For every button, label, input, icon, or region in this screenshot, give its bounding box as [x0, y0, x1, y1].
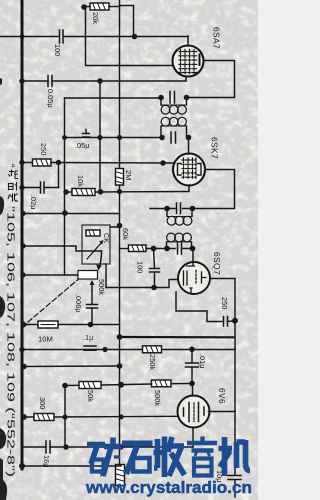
potentiometer 500k — [22, 274, 78, 276]
wire 6SA7 plate loop — [187, 61, 235, 98]
svg-text:CK: CK — [102, 233, 111, 243]
resistor R 10k line y191 — [65, 191, 189, 194]
wire 6V6 cathode — [192, 428, 194, 448]
svg-text:60k: 60k — [121, 228, 130, 240]
wire grid line y81 — [22, 76, 186, 81]
wire main left bus — [21, 0, 24, 469]
left page text column — [5, 164, 16, 477]
resistor R 500k second — [152, 380, 172, 387]
resistor R 250k — [143, 346, 162, 353]
wire top horizontal y36 — [0, 36, 188, 38]
svg-text:“: “ — [5, 164, 16, 168]
wire dashed coupling — [28, 280, 78, 323]
wire 20k to V3 — [109, 6, 120, 8]
svg-text:0.05μ: 0.05μ — [46, 89, 55, 108]
hand-drawn chars xin shi dai — [8, 170, 18, 202]
tube 6V6 — [178, 396, 210, 428]
svg-text:10k: 10k — [76, 175, 85, 187]
wire V59 down — [58, 163, 60, 188]
char ji — [219, 437, 233, 476]
resistor R 20k — [90, 3, 109, 10]
svg-text:10M: 10M — [38, 335, 53, 344]
resistor R 2M on V3 — [116, 169, 124, 186]
svg-text:.01μ: .01μ — [198, 354, 207, 369]
wire under 6SQ7 — [176, 292, 222, 322]
svg-text:100: 100 — [136, 261, 145, 273]
node junction at 134,36 — [132, 34, 138, 40]
resistor R 300 — [34, 414, 54, 421]
svg-text:50k: 50k — [86, 390, 95, 402]
svg-text:250: 250 — [220, 297, 229, 309]
capacitor .006u — [87, 305, 98, 309]
tube 6SA7 — [173, 46, 204, 77]
char kuang — [87, 445, 105, 465]
tube 6SQ7 — [178, 262, 210, 294]
svg-text:.02μ: .02μ — [29, 195, 38, 210]
resistor R 10M line y324 — [25, 324, 120, 326]
svg-text:”105, 106, 107, 108, 109 (“552: ”105, 106, 107, 108, 109 (“552-8”) — [5, 206, 16, 477]
char shi — [122, 444, 153, 475]
svg-text:500k: 500k — [97, 279, 106, 295]
svg-text:250: 250 — [39, 143, 48, 155]
capacitor 100 vertical — [154, 249, 155, 288]
capacitor IF2 bottom — [178, 243, 182, 254]
wire y447 — [22, 446, 193, 448]
wire V64 — [64, 98, 66, 275]
svg-text:.1μ: .1μ — [83, 333, 93, 342]
wire 6V6 plate — [209, 411, 236, 413]
svg-text:300: 300 — [38, 397, 47, 409]
transformer IF1 — [158, 92, 191, 144]
wire 6SK7 cathode stub — [188, 185, 190, 192]
capacitor .05u small — [83, 130, 90, 138]
node junction dot 84,7 — [81, 4, 87, 10]
switch box CK — [82, 225, 110, 264]
wire y287 cathode line — [106, 280, 178, 288]
wire y366 — [22, 365, 120, 368]
capacitor 250 coupling — [224, 317, 228, 327]
resistor R 2k on V3 — [116, 465, 125, 486]
wire y246 + pot hook — [22, 246, 102, 251]
svg-text:www.crystalradio.cn: www.crystalradio.cn — [85, 478, 252, 497]
wire right vertical lower — [234, 321, 236, 497]
resistor R 60k — [120, 248, 129, 250]
wire y98 grid — [65, 97, 162, 99]
svg-text:2M: 2M — [124, 170, 133, 181]
svg-text:100: 100 — [53, 44, 62, 56]
capacitor .02u — [19, 185, 24, 190]
svg-text:500k: 500k — [153, 390, 162, 406]
wire AVC y137.5 — [65, 137, 163, 139]
svg-text:6SK7: 6SK7 — [210, 137, 220, 159]
watermark — [87, 437, 250, 478]
char yin — [187, 437, 217, 451]
wire V100 — [99, 81, 101, 192]
wire y466 — [22, 465, 121, 467]
svg-text:6SQ7: 6SQ7 — [212, 252, 222, 275]
wire y349 long — [22, 349, 235, 351]
capacitor 10u bottom right — [228, 476, 241, 480]
svg-text:16μ: 16μ — [42, 455, 51, 467]
resistor R 250 — [19, 160, 24, 165]
wire V2 from dot down and right to tube — [86, 7, 175, 66]
wire 6SK7 grid stub — [188, 138, 190, 155]
capacitor .01u second — [191, 349, 193, 383]
svg-text:.006μ: .006μ — [74, 294, 83, 313]
svg-text:6V6: 6V6 — [217, 388, 227, 404]
capacitor .1u — [84, 346, 96, 350]
svg-text:20k: 20k — [91, 12, 100, 24]
svg-text:250k: 250k — [148, 354, 157, 370]
wire B+ y337 — [120, 336, 235, 338]
char shou — [154, 437, 165, 478]
wire top small loop to 134 — [120, 6, 134, 37]
resistor R 50k — [79, 382, 101, 389]
torn edge blobs — [0, 78, 7, 500]
svg-text:6SA7: 6SA7 — [212, 27, 222, 49]
transformer IF2 — [150, 203, 195, 249]
wire V3 long vertical — [119, 0, 121, 465]
capacitor 100 (top) — [60, 30, 64, 43]
tube 6SK7 — [173, 154, 205, 186]
capacitor 0.05u — [48, 76, 52, 87]
wire y417 — [22, 415, 178, 418]
wire y213 — [22, 213, 120, 215]
wire y384 — [65, 384, 192, 386]
wire 6SQ7 plate to right — [210, 279, 235, 321]
wire y162 to 6SK7 — [51, 162, 175, 165]
svg-text:.05μ: .05μ — [75, 141, 90, 150]
wire 6SK7 plate loop — [193, 170, 235, 209]
capacitor 16u — [46, 441, 50, 453]
wire V65 — [64, 386, 66, 448]
